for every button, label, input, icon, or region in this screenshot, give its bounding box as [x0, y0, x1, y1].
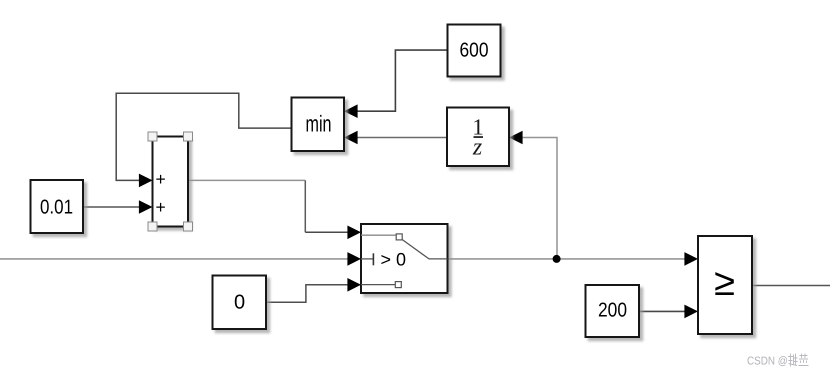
svg-text:0.01: 0.01: [40, 197, 73, 219]
svg-text:600: 600: [460, 40, 489, 62]
svg-text:> 0: > 0: [381, 250, 407, 270]
svg-text:z: z: [472, 135, 483, 161]
svg-text:CSDN @: CSDN @: [747, 356, 788, 368]
svg-text:min: min: [306, 111, 332, 137]
svg-text:+: +: [156, 197, 166, 217]
svg-text:≥: ≥: [714, 262, 735, 304]
svg-text:200: 200: [598, 300, 627, 322]
svg-text:0: 0: [234, 292, 245, 314]
svg-text:+: +: [156, 169, 166, 189]
